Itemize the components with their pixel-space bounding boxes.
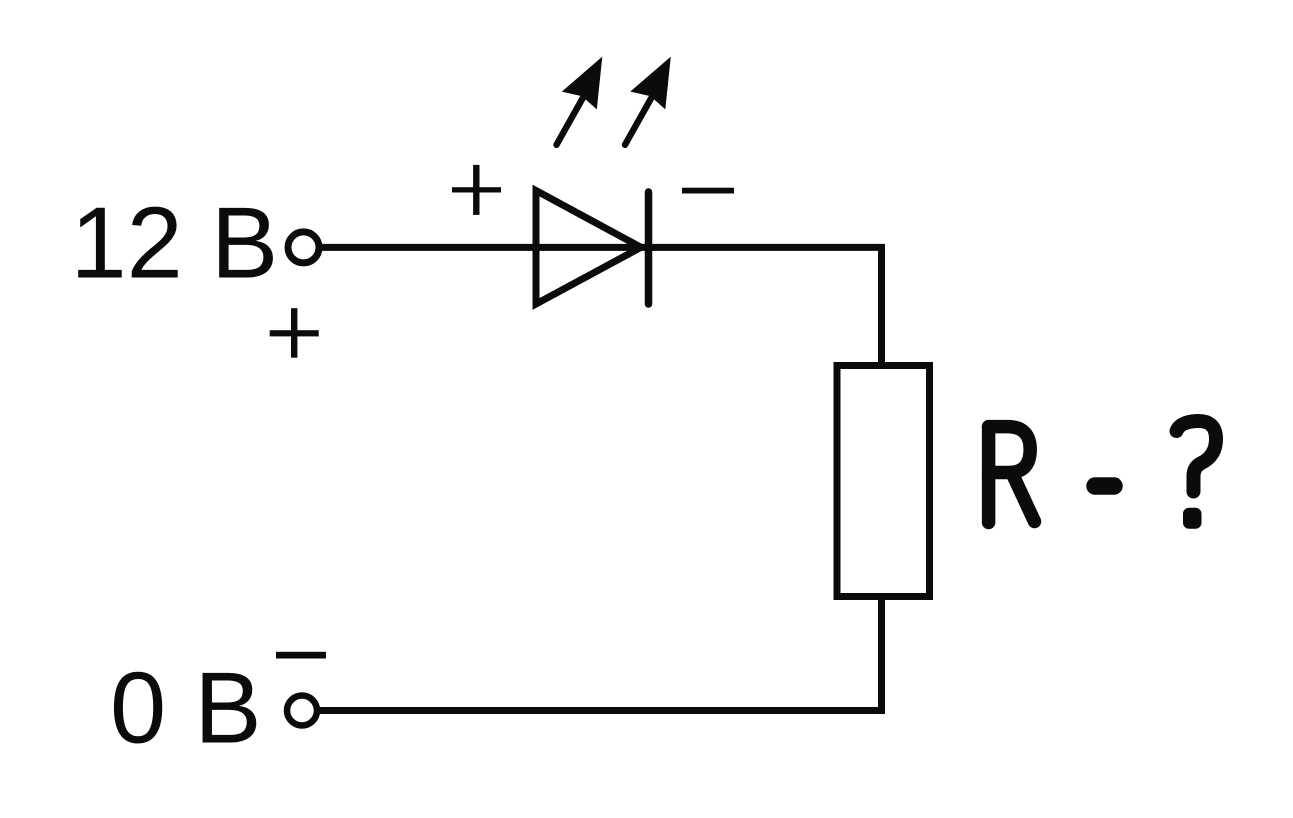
- svg-text:0 В: 0 В: [110, 652, 262, 764]
- svg-text:12 В: 12 В: [71, 188, 279, 300]
